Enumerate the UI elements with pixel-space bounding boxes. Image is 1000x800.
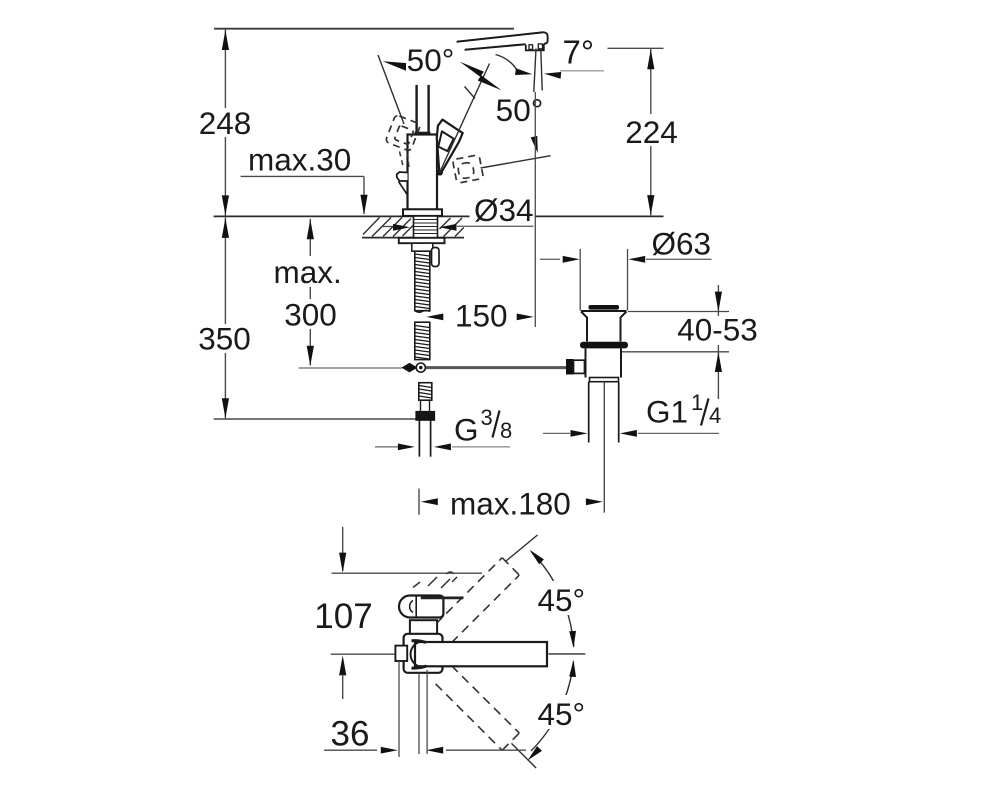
45 deg arcs: [532, 552, 574, 647]
dimension 107: [342, 527, 344, 571]
dimension 248: [224, 30, 226, 216]
drain pop-up cap: [589, 305, 620, 310]
svg-text:1: 1: [691, 390, 703, 415]
dimension max.30: [241, 175, 364, 177]
dimension 350: [224, 218, 226, 419]
plan: spout bar: [415, 642, 547, 666]
svg-text:224: 224: [625, 114, 678, 150]
solid tilted lever (outline): [437, 120, 463, 173]
angle label 50 deg upper: [383, 61, 409, 71]
drain flange body: [581, 311, 627, 342]
escutcheon base plate: [403, 209, 442, 216]
svg-text:50°: 50°: [496, 92, 544, 128]
45 deg arrows: [527, 547, 544, 564]
supply pipe lower section: [415, 322, 430, 359]
svg-text:300: 300: [284, 297, 337, 333]
solid lever inner square: [438, 131, 453, 151]
plan: lever pin line: [421, 597, 464, 600]
faucet body: [408, 135, 438, 210]
countertop slab bottom line: [362, 237, 464, 239]
threaded shank through counter: [414, 216, 438, 238]
pop-up rod (right small rod): [432, 248, 440, 267]
plan: spout centerline stub: [549, 653, 586, 655]
dashed handle left stem: [400, 152, 404, 169]
body left tab: [397, 172, 408, 181]
dimension max.180: [418, 489, 420, 515]
plan: dashed spout swung up 45: [436, 558, 520, 643]
drain tailpipe: [588, 382, 590, 443]
countertop hatching: [363, 218, 464, 237]
spout horizontal (7 deg inclined): [457, 32, 544, 42]
svg-text:107: 107: [314, 597, 372, 636]
dimension max.300: [309, 219, 311, 366]
svg-text:max.: max.: [274, 254, 342, 290]
dashed handle position left: [385, 115, 421, 152]
plan: neck: [410, 620, 437, 636]
7 deg stream lines: [534, 49, 536, 93]
body right pivot tab: [437, 167, 442, 173]
svg-text:350: 350: [198, 321, 251, 357]
spout tip: [543, 32, 547, 44]
dimension G3/8: [375, 446, 398, 448]
mounting nut: [399, 238, 445, 243]
dimension Ø34 arrows: [393, 224, 410, 231]
svg-text:150: 150: [455, 298, 508, 334]
svg-text:248: 248: [199, 105, 252, 141]
plan: dashed handle hint dashes: [413, 572, 457, 588]
drain flange extension lines: [579, 249, 581, 311]
pivot dot: [437, 169, 443, 175]
svg-text:3: 3: [481, 405, 493, 430]
plan: body square: [404, 634, 443, 673]
50 deg ray left (lever axis extended): [378, 55, 404, 124]
plan: handle (pointing up): [399, 596, 443, 618]
plan: spout base round cap: [411, 642, 421, 668]
pop-up linkage horizontal rod: [299, 367, 403, 369]
svg-text:Ø34: Ø34: [474, 192, 534, 228]
plan: verticals below body: [398, 661, 400, 757]
rod connector block: [566, 359, 574, 375]
drain valve body: [586, 349, 622, 378]
svg-text:Ø63: Ø63: [652, 226, 712, 262]
spout shaft (two stems): [415, 85, 417, 134]
spout outlet block: [526, 44, 544, 51]
drain rod lower section: [419, 383, 432, 401]
pipe break: [415, 311, 430, 313]
wire countertop surface line: [214, 215, 664, 217]
50 deg ray diagonal (tilted lever axis): [440, 64, 490, 173]
flange o-ring seal: [580, 342, 628, 349]
svg-text:45°: 45°: [538, 582, 586, 618]
G3/8 tube end: [418, 420, 420, 456]
dashed handle position lower right: [452, 155, 483, 184]
svg-text:45°: 45°: [538, 696, 586, 732]
dimension 150: [426, 314, 443, 321]
stream axis extension down to counter: [534, 92, 536, 327]
svg-text:max.30: max.30: [248, 142, 351, 178]
svg-text:G: G: [454, 412, 479, 448]
dimension 36: [324, 749, 377, 751]
wire top reference line (spout height datum): [214, 28, 514, 30]
7 deg arrows: [515, 68, 533, 77]
45 deg extension ticks: [506, 535, 538, 561]
svg-text:50°: 50°: [407, 42, 455, 78]
plan: left cap square: [395, 646, 407, 661]
svg-text:max.180: max.180: [450, 485, 571, 521]
svg-text:4: 4: [709, 403, 721, 428]
supply pipe upper section (braided): [415, 251, 430, 311]
lower lever axis line: [481, 156, 551, 168]
aerator marks: [529, 45, 533, 50]
arc for 50 deg lower: [496, 55, 520, 75]
G3/8 connector nut: [416, 411, 435, 420]
rod elbow joint circle: [416, 363, 425, 372]
wire 350 bottom reference line: [214, 418, 416, 420]
svg-text:40-53: 40-53: [677, 312, 758, 348]
svg-text:7°: 7°: [563, 34, 595, 71]
svg-text:G1: G1: [646, 394, 688, 430]
shank stub below nut: [412, 243, 433, 251]
dimension G1 1/4: [543, 432, 570, 434]
wire small stub near spout bend: [465, 87, 476, 99]
dimension 224: [608, 47, 664, 49]
svg-text:8: 8: [500, 418, 512, 443]
dimension 40-53: [628, 311, 729, 313]
plan: dashed spout swung down 45: [436, 666, 520, 751]
svg-text:36: 36: [331, 715, 370, 754]
rod elbow diamond: [402, 363, 418, 373]
